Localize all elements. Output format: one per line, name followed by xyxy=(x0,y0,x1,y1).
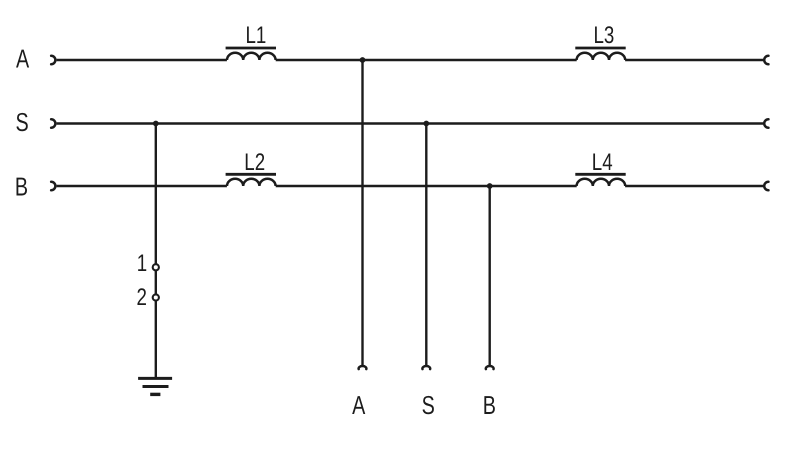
value label L3 xyxy=(593,22,614,49)
pin label 2 xyxy=(136,284,146,311)
wire: bus A right segment xyxy=(625,59,763,61)
value label L1 xyxy=(245,22,266,49)
terminal: socket B right xyxy=(764,182,768,190)
svg-text:B: B xyxy=(483,390,496,420)
label B (bottom output) xyxy=(483,390,496,420)
inductor L1 xyxy=(226,48,276,60)
wire: bus B left segment xyxy=(57,185,227,187)
wire: drop from bus S to output S xyxy=(425,124,427,367)
junction on bus A xyxy=(360,57,366,63)
terminal: socket S left xyxy=(51,119,55,127)
inductor L4 xyxy=(575,174,625,186)
label S (left bus S) xyxy=(16,107,29,137)
svg-text:L1: L1 xyxy=(245,22,266,49)
terminal: socket S right xyxy=(764,119,768,127)
svg-text:S: S xyxy=(422,390,435,420)
wire: bus S xyxy=(57,122,764,124)
wire: bus A middle segment xyxy=(276,59,577,61)
label S (bottom output) xyxy=(422,390,435,420)
label A (bottom output) xyxy=(352,390,366,420)
svg-text:2: 2 xyxy=(136,284,146,311)
svg-text:L3: L3 xyxy=(593,22,614,49)
inductor L2 xyxy=(226,174,276,186)
value label L2 xyxy=(244,149,265,176)
test point 2 xyxy=(153,294,159,300)
junction on bus S at ground branch xyxy=(153,121,159,127)
label A (left bus A) xyxy=(16,43,30,73)
terminal: socket output B xyxy=(486,366,494,369)
terminal: socket output S xyxy=(422,366,430,369)
svg-text:B: B xyxy=(15,172,28,202)
svg-text:S: S xyxy=(16,107,29,137)
wire: bus A left segment xyxy=(57,59,227,61)
junction on bus B at output drop xyxy=(487,183,493,189)
wire: bus B right segment xyxy=(625,185,763,187)
test point 1 xyxy=(153,264,159,270)
svg-text:1: 1 xyxy=(137,250,147,277)
wire: bus B middle segment xyxy=(276,185,577,187)
ground xyxy=(138,378,172,394)
svg-text:A: A xyxy=(16,43,30,73)
label B (left bus B) xyxy=(15,172,28,202)
value label L4 xyxy=(592,149,613,176)
inductor L3 xyxy=(575,48,625,60)
svg-text:L2: L2 xyxy=(244,149,265,176)
junction on bus S at output drop xyxy=(423,121,429,127)
wire: ground branch from bus S xyxy=(155,124,157,378)
wire: drop from bus A to output A xyxy=(361,60,363,366)
wire: drop from bus B to output B xyxy=(489,186,491,366)
svg-text:A: A xyxy=(352,390,366,420)
terminal: socket B left xyxy=(51,182,55,190)
terminal: socket output A xyxy=(359,366,367,369)
svg-text:L4: L4 xyxy=(592,149,613,176)
terminal: socket A right xyxy=(764,56,768,64)
terminal: socket A left xyxy=(51,56,55,64)
pin label 1 xyxy=(137,250,147,277)
